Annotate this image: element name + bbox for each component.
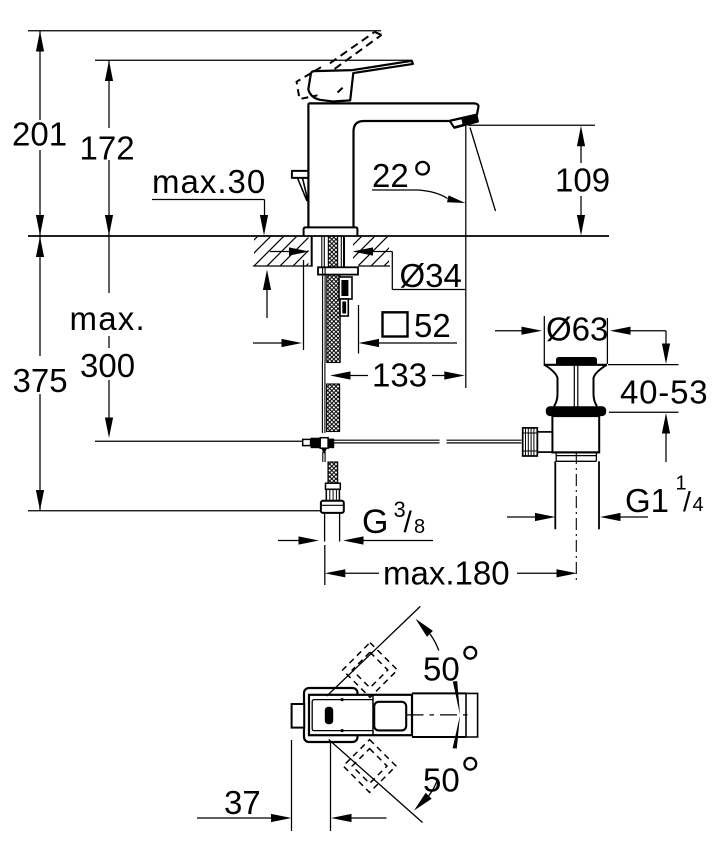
svg-text:/: / bbox=[404, 506, 413, 539]
svg-text:max.: max. bbox=[70, 300, 146, 337]
svg-text:109: 109 bbox=[555, 162, 610, 199]
svg-text:G1: G1 bbox=[625, 482, 669, 519]
svg-text:50: 50 bbox=[423, 762, 460, 799]
svg-text:40-53: 40-53 bbox=[620, 374, 708, 411]
svg-text:/: / bbox=[683, 486, 691, 517]
svg-text:8: 8 bbox=[414, 516, 425, 538]
svg-text:max.180: max.180 bbox=[383, 555, 510, 592]
svg-text:G: G bbox=[362, 503, 388, 541]
svg-text:Ø63: Ø63 bbox=[546, 311, 608, 348]
svg-text:300: 300 bbox=[80, 347, 135, 384]
svg-text:52: 52 bbox=[414, 307, 451, 344]
svg-text:172: 172 bbox=[80, 130, 135, 167]
svg-text:max.30: max.30 bbox=[152, 163, 266, 200]
svg-text:50: 50 bbox=[423, 651, 460, 688]
svg-text:37: 37 bbox=[224, 784, 261, 821]
svg-text:4: 4 bbox=[693, 494, 704, 516]
svg-text:22: 22 bbox=[372, 157, 409, 194]
svg-text:Ø34: Ø34 bbox=[400, 257, 462, 294]
svg-text:133: 133 bbox=[372, 357, 427, 394]
svg-text:375: 375 bbox=[13, 362, 68, 399]
svg-text:201: 201 bbox=[12, 116, 67, 153]
